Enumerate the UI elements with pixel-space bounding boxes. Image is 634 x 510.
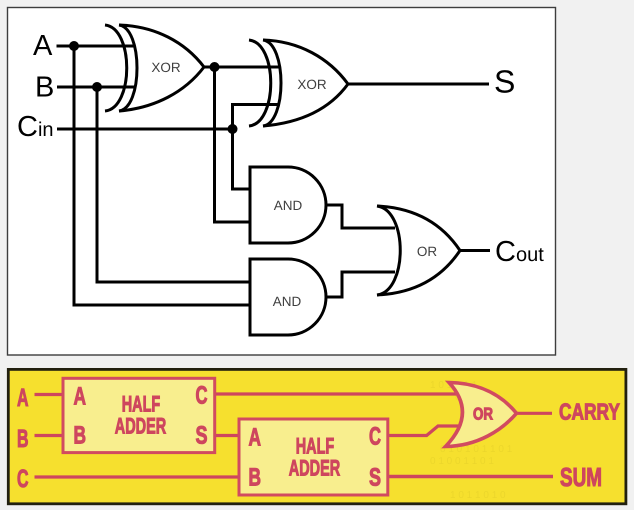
svg-text:B: B (249, 464, 262, 492)
wire HA2 S output to SUM (388, 475, 553, 479)
panel: gate-level full adder (8, 8, 556, 356)
or gate U5 (377, 206, 460, 295)
xor gate U1 (105, 25, 204, 111)
wire HA2 C output to OR lower input (388, 426, 460, 436)
node B junction (92, 82, 102, 92)
panel: half-adder block diagram (8, 369, 626, 503)
svg-text:OR: OR (417, 244, 438, 259)
wire B to HA1 (35, 434, 64, 437)
svg-text:XOR: XOR (151, 60, 181, 75)
xor gate U2 (249, 40, 348, 126)
wire B to AND2 upper input (97, 87, 250, 282)
wire Cin input (57, 128, 233, 131)
half adder HA2 box (239, 419, 388, 495)
svg-text:A: A (74, 382, 87, 410)
wire Cout output (460, 249, 490, 252)
svg-text:A: A (33, 30, 53, 62)
svg-text:SUM: SUM (560, 462, 602, 492)
svg-text:AND: AND (273, 294, 302, 309)
svg-text:C: C (196, 382, 208, 410)
svg-text:S: S (494, 63, 515, 99)
wire AND2 output to OR lower input (326, 272, 395, 297)
wire B input (57, 86, 135, 89)
svg-text:B: B (35, 72, 54, 104)
svg-text:B: B (74, 422, 87, 450)
half adder HA1 box (63, 378, 215, 452)
svg-text:0 1 0 0 1 1 0 1: 0 1 0 0 1 1 0 1 (430, 456, 494, 467)
wire HA1 S output to HA2 A input (215, 434, 239, 437)
node XOR1 output junction (210, 62, 220, 72)
svg-text:OR: OR (473, 405, 493, 424)
wire OR output to CARRY (517, 412, 553, 415)
svg-text:S: S (369, 464, 381, 492)
wire A to AND2 lower input (74, 46, 250, 305)
wire Cin to AND1 upper input (233, 129, 251, 189)
svg-text:A: A (17, 384, 29, 412)
svg-text:CARRY: CARRY (559, 399, 620, 425)
wire C to HA2 B input (35, 475, 240, 478)
and gate U3 (250, 167, 326, 243)
wire XOR1 output to AND1 lower input (215, 67, 251, 222)
wire XOR1 output to XOR2 upper input (204, 66, 281, 69)
svg-text:AND: AND (274, 198, 303, 213)
svg-text:S: S (196, 422, 208, 450)
wire A to HA1 (35, 393, 64, 396)
label HALF ADDER HA2 (289, 434, 341, 481)
wire HA1 C output to OR upper input (215, 392, 456, 395)
svg-text:A: A (249, 424, 262, 452)
svg-text:ADDER: ADDER (289, 455, 341, 480)
svg-text:XOR: XOR (297, 77, 327, 92)
wire AND1 output to OR upper input (326, 205, 395, 228)
label HALF ADDER HA1 (115, 392, 167, 439)
svg-text:C: C (17, 465, 29, 493)
node A junction (69, 41, 79, 51)
wire S output (348, 83, 489, 86)
node Cin junction (228, 124, 238, 134)
wire Cin to XOR2 lower input (233, 105, 280, 130)
or gate U6 (block diagram) (446, 383, 517, 447)
wire A input (57, 45, 136, 48)
svg-text:B: B (17, 425, 29, 453)
and gate U4 (250, 259, 326, 335)
svg-text:1 0 1 1 0 1 0: 1 0 1 1 0 1 0 (450, 490, 506, 501)
svg-text:ADDER: ADDER (115, 413, 167, 438)
svg-text:C: C (369, 423, 381, 451)
